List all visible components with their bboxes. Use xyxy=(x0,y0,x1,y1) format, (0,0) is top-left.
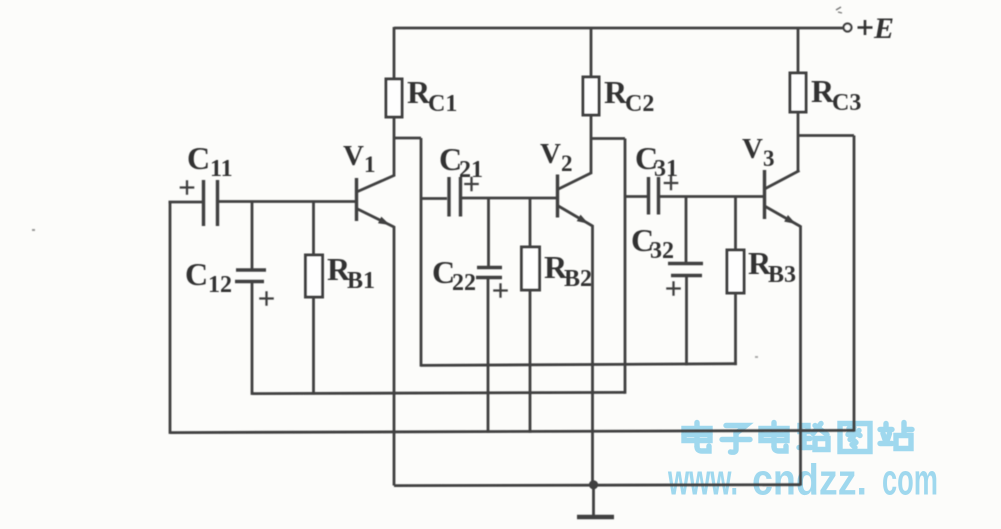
svg-text:31: 31 xyxy=(654,156,678,182)
junction dot at ground node xyxy=(589,480,598,489)
svg-text:E: E xyxy=(873,12,894,45)
wire +E rail drop to RC2 xyxy=(590,28,593,77)
svg-text:com: com xyxy=(882,456,938,505)
wire C12 top stub xyxy=(251,202,254,270)
polarity + of C12 xyxy=(259,291,274,306)
wire C21 left lead xyxy=(421,197,447,200)
wire node row B (C12 - RB1 - V2 coupling) xyxy=(252,392,625,393)
svg-text:cndzz.: cndzz. xyxy=(752,456,867,505)
wire collector jog V2 to coupling line xyxy=(591,137,625,140)
wire V3 emitter down to ground rail xyxy=(799,226,802,486)
transistor V2 collector stroke xyxy=(558,173,593,190)
resistor RC3 xyxy=(790,73,806,112)
capacitor C21 xyxy=(449,177,461,217)
wire C31 left lead xyxy=(625,195,647,198)
wire V1 emitter down to ground rail xyxy=(393,226,396,486)
scan speck artifacts xyxy=(32,229,35,231)
svg-text:11: 11 xyxy=(210,156,233,182)
wire C12 bottom stub to node row B xyxy=(251,282,254,395)
wire C32 top stub xyxy=(685,197,688,264)
wire V3 base lead xyxy=(660,195,764,198)
svg-text:C: C xyxy=(187,140,210,176)
capacitor C12 (electrolytic) xyxy=(236,268,266,271)
resistor RB3 xyxy=(727,250,744,293)
wire V1 coupling line down to node row A xyxy=(420,138,423,367)
svg-text:C2: C2 xyxy=(625,91,654,117)
polarity + of C31 xyxy=(664,176,679,191)
wire node row A (V1 coupling - C32 - RB3) xyxy=(421,364,737,366)
capacitor C31 xyxy=(649,177,659,215)
wire C22 top stub xyxy=(487,198,490,268)
wire RB3 top stub xyxy=(734,197,737,251)
wire V1 base lead xyxy=(219,200,356,203)
wire V2 base lead xyxy=(462,197,557,200)
wire V2 coupling line down to node row B xyxy=(624,139,627,394)
svg-text:B2: B2 xyxy=(564,266,592,292)
transistor V3 base bar xyxy=(763,170,766,219)
wire ground rail xyxy=(394,483,801,487)
svg-text:V: V xyxy=(742,133,763,165)
transistor V1 collector stroke xyxy=(357,175,396,192)
svg-text:1: 1 xyxy=(364,152,376,177)
svg-text:C3: C3 xyxy=(832,90,861,116)
polarity + of C11 xyxy=(180,180,195,195)
wire feedback loop left vertical (C11 to node row C) xyxy=(169,202,172,434)
svg-text:22: 22 xyxy=(452,270,476,296)
wire C22 bottom stub to node row C xyxy=(487,278,490,433)
wire V3 coupling line down to node row C xyxy=(853,136,856,432)
svg-text:www.: www. xyxy=(667,456,738,505)
svg-text:V: V xyxy=(343,140,364,172)
wire top supply rail xyxy=(394,27,843,30)
ground symbol bar xyxy=(577,515,614,519)
transistor V2 emitter stroke with arrow xyxy=(558,206,593,227)
svg-text:V: V xyxy=(540,138,561,170)
wire RC2 to V2 collector xyxy=(590,115,593,173)
polarity + of C21 xyxy=(464,177,479,192)
svg-text:32: 32 xyxy=(650,238,674,264)
svg-text:B1: B1 xyxy=(347,268,375,294)
transistor V1 base bar xyxy=(355,178,358,221)
wire RC3 to V3 collector xyxy=(797,112,800,171)
resistor RC2 xyxy=(583,77,599,115)
wire RB3 bottom stub to node row A xyxy=(734,293,737,365)
wire RB1 bottom stub to node row B xyxy=(312,297,315,395)
transistor V3 collector stroke xyxy=(765,171,800,190)
svg-text:2: 2 xyxy=(561,151,573,176)
resistor RC1 xyxy=(386,79,402,117)
watermark chinese text 电子电路图站 (drawn strokes) xyxy=(684,423,912,453)
wire C32 bottom stub to node row A xyxy=(685,276,688,366)
capacitor C32 (electrolytic) xyxy=(668,262,703,265)
transistor V1 emitter stroke with arrow xyxy=(357,209,395,228)
capacitor C11 xyxy=(204,180,218,226)
resistor RB2 xyxy=(522,247,540,290)
polarity + of C22 xyxy=(493,283,508,298)
wire node row C (C11 - C22 - RB2 - V3 coupling) xyxy=(170,430,854,432)
svg-text:B3: B3 xyxy=(768,262,796,288)
wire RB2 top stub xyxy=(529,198,532,247)
transistor V2 base bar xyxy=(556,175,559,218)
svg-text:C: C xyxy=(185,256,208,292)
terminal +E xyxy=(844,24,852,32)
wire V2 emitter down to ground junction xyxy=(591,225,594,485)
transistor V3 emitter stroke with arrow xyxy=(765,206,801,227)
wire ground stem xyxy=(592,485,595,516)
svg-text:3: 3 xyxy=(763,146,775,171)
wire RB2 bottom stub to node row C xyxy=(529,290,532,433)
wire RB1 top stub xyxy=(312,202,315,256)
wire collector jog V3 to coupling line xyxy=(798,134,854,137)
wire +E rail drop to RC1 xyxy=(393,27,396,79)
capacitor C22 (electrolytic) xyxy=(477,266,502,269)
svg-text:12: 12 xyxy=(208,272,232,298)
wire collector jog V1 to coupling line xyxy=(394,137,421,140)
resistor RB1 xyxy=(306,255,323,297)
wire C11 left lead xyxy=(169,201,203,204)
wire RC1 to V1 collector xyxy=(393,117,396,176)
wire +E rail drop to RC3 xyxy=(797,28,800,73)
svg-text:C1: C1 xyxy=(428,91,457,117)
polarity + of C32 xyxy=(666,281,681,296)
